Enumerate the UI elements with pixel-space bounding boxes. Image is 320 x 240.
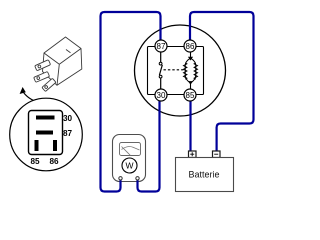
ohmmeter display window <box>120 143 141 156</box>
wire W3: relay terminal 86 to battery minus terminal <box>190 12 254 151</box>
ohmmeter scale arc <box>122 147 140 150</box>
switch contact between 87 and 30 <box>159 52 162 89</box>
relay pin blade 3 <box>42 78 56 91</box>
battery plus terminal <box>189 151 197 158</box>
dashed actuation link from switch to coil <box>164 69 185 71</box>
ohmmeter right terminal <box>136 177 139 180</box>
ohmmeter needle <box>122 147 131 156</box>
slot for pin 30 <box>36 116 55 120</box>
ohmmeter left terminal <box>119 177 122 180</box>
relay pin blade 2 <box>34 72 50 83</box>
slot for pin 86 <box>53 140 57 151</box>
terminal 30 <box>155 89 167 101</box>
slot for pin 87 <box>36 131 53 135</box>
wire W1: relay terminal 87 to ohmmeter left terminal <box>101 12 161 192</box>
svg-text:85: 85 <box>186 91 195 100</box>
svg-text:86: 86 <box>49 157 59 166</box>
wire W4: relay terminal 85 to battery plus terminal <box>189 101 191 152</box>
slot for pin 85 <box>35 140 39 151</box>
ohmmeter body <box>113 135 146 182</box>
battery minus terminal <box>213 151 221 158</box>
relay socket circle (pin side view) <box>10 98 83 171</box>
svg-text:87: 87 <box>157 42 166 51</box>
terminal 87 <box>155 40 167 52</box>
relay component (3D view) <box>34 37 82 92</box>
battery body <box>176 158 234 192</box>
svg-text:W: W <box>125 161 133 171</box>
terminal 86 <box>184 40 196 52</box>
ohmmeter W symbol <box>122 158 137 173</box>
svg-text:87: 87 <box>63 129 73 138</box>
inner contact frame <box>148 47 204 95</box>
svg-text:30: 30 <box>63 114 73 123</box>
relay pin blade 1 <box>35 60 51 71</box>
socket face <box>29 111 63 155</box>
svg-text:Batterie: Batterie <box>188 170 219 180</box>
terminal 85 <box>184 89 196 101</box>
svg-text:30: 30 <box>157 91 166 100</box>
relay schematic circle (bottom view of relay) <box>135 25 226 116</box>
svg-text:86: 86 <box>186 42 195 51</box>
relay coil between 86 and 85 <box>184 52 198 89</box>
arrowhead <box>20 87 26 94</box>
svg-text:85: 85 <box>30 157 40 166</box>
wire W2: ohmmeter right terminal to relay terminal 30 <box>138 101 160 192</box>
arrow from socket view to relay <box>24 93 44 104</box>
